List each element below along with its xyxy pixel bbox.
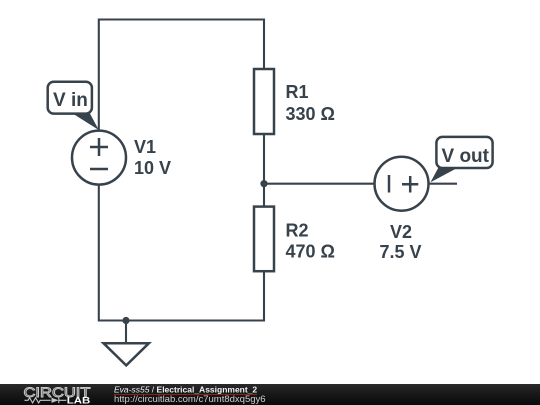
label R2 name and value [286,221,335,262]
ground [104,321,149,366]
svg-text:Eva-ss55 / Electrical_Assignme: Eva-ss55 / Electrical_Assignment_2 [114,385,257,395]
svg-text:470 Ω: 470 Ω [286,241,335,261]
wire top rail: V1 top to R1 top [99,20,264,132]
resistor R2 [254,207,274,272]
V2 minus terminal mark (rotated) [388,175,391,193]
label V1 name and value [134,137,171,178]
svg-text:10 V: 10 V [134,158,171,178]
wire node A to R2 top [263,184,265,207]
svg-text:330 Ω: 330 Ω [286,104,335,124]
svg-text:7.5 V: 7.5 V [379,242,421,262]
wire R1 bottom to node A [263,134,265,185]
wire V2 right stub [428,183,457,185]
svg-text:V out: V out [442,146,490,167]
svg-text:R2: R2 [286,221,309,241]
label V2 name and value [379,222,421,262]
V2 plus terminal mark [402,176,418,193]
CircuitLab logo: diode triangle [52,398,59,403]
svg-text:V1: V1 [134,137,156,157]
ground junction dot [122,317,129,324]
V1 minus terminal mark [90,168,108,171]
svg-text:LAB: LAB [67,395,91,405]
wire bottom rail: V1 bottom to ground junction to R2 bottom [99,184,264,321]
CircuitLab logo: resistor + diode squiggle [25,398,67,404]
flag V in (net label) [48,82,99,130]
flag V out (net label) [431,137,493,182]
V1 plus terminal mark [90,138,108,156]
svg-text:R1: R1 [286,82,309,102]
svg-text:V in: V in [53,90,88,111]
svg-text:V2: V2 [390,222,412,242]
node A junction dot (divider output) [260,180,267,187]
voltage source V2 [375,157,429,211]
red underline [114,394,257,395]
wire node A to V2 left terminal [264,183,376,185]
svg-text:http://circuitlab.com/c7umt8dx: http://circuitlab.com/c7umt8dxq5gy6 [114,394,266,405]
voltage source V1 [72,131,126,185]
label R1 name and value [286,82,335,124]
footer bar [0,384,540,405]
resistor R1 [254,69,274,134]
